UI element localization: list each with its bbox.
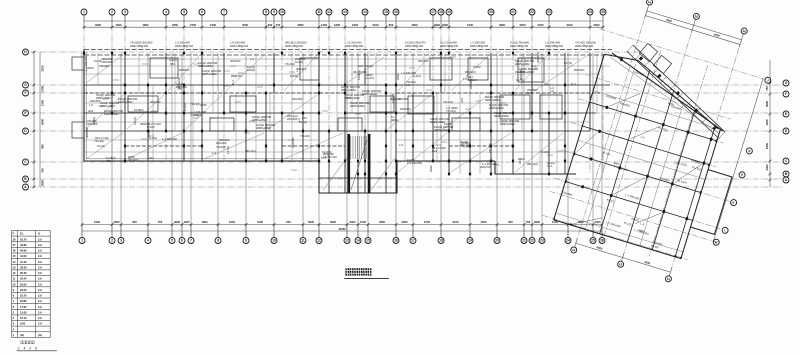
svg-text:41.10: 41.10	[20, 260, 27, 264]
svg-text:YKL6(2): YKL6(2)	[285, 62, 295, 66]
grid bubble left G	[23, 82, 29, 88]
stair flight diagonal	[351, 140, 367, 190]
svg-text:2.9: 2.9	[38, 265, 42, 269]
svg-text:2100: 2100	[453, 220, 459, 224]
svg-text:2.9: 2.9	[38, 237, 42, 241]
svg-text:GZ1: GZ1	[527, 91, 533, 95]
grid bubble top 19	[446, 9, 452, 15]
svg-text:3300: 3300	[95, 23, 101, 27]
svg-text:L-3: L-3	[250, 57, 254, 61]
svg-text:900: 900	[508, 220, 513, 224]
grid bubble top 12	[326, 9, 332, 15]
junction ramp band (ladder)	[627, 45, 725, 139]
svg-text:KL12(4): KL12(4)	[322, 150, 332, 154]
grid bubble top 24	[587, 9, 593, 15]
interior vertical walls	[112, 53, 590, 193]
svg-text:4500: 4500	[481, 220, 487, 224]
svg-text:F: F	[24, 91, 26, 95]
svg-text:300x600: 300x600	[230, 59, 241, 63]
svg-text:L-5: L-5	[550, 89, 554, 93]
svg-text:2400: 2400	[229, 220, 235, 224]
wing outer walls	[554, 50, 757, 265]
svg-text:1200: 1200	[765, 119, 769, 125]
svg-text:200x500: 200x500	[291, 137, 295, 148]
top bubble stems	[84, 15, 603, 28]
svg-text:6: 6	[181, 239, 183, 243]
svg-text:2Ø25+2Ø22: 2Ø25+2Ø22	[341, 88, 356, 92]
svg-text:L-3: L-3	[463, 77, 467, 81]
svg-text:2700: 2700	[41, 86, 45, 92]
svg-text:1 4 2 5: 1 4 2 5	[18, 347, 38, 351]
grid bubble right D	[783, 128, 789, 134]
svg-text:L-1 200x400: L-1 200x400	[407, 161, 422, 165]
svg-text:26: 26	[600, 239, 604, 243]
grid bubble bottom 10	[271, 238, 277, 244]
svg-text:2.9: 2.9	[38, 288, 42, 292]
svg-text:16: 16	[394, 239, 398, 243]
svg-text:750: 750	[41, 168, 45, 173]
svg-text:13: 13	[343, 10, 347, 14]
grid bubble left H	[23, 49, 29, 55]
grid bubble right B	[783, 171, 789, 177]
wing grid bubble 16	[740, 27, 747, 34]
right dimension ticks	[769, 82, 772, 182]
svg-text:900: 900	[268, 23, 273, 27]
svg-text:44000: 44000	[338, 227, 346, 231]
grid bubble bottom 7	[188, 238, 194, 244]
svg-text:KL1(2): KL1(2)	[94, 59, 102, 63]
svg-text:3600: 3600	[174, 220, 180, 224]
svg-text:250x600: 250x600	[102, 60, 113, 64]
svg-text:YKL3(2): YKL3(2)	[94, 139, 104, 143]
svg-text:1500: 1500	[360, 220, 366, 224]
svg-text:3900: 3900	[434, 23, 440, 27]
svg-text:KL18(3): KL18(3)	[134, 108, 144, 112]
svg-text:2250: 2250	[520, 23, 526, 27]
rotated wing block	[535, 0, 787, 294]
grid bubble top 5	[181, 9, 187, 15]
grid bubble top 18	[438, 9, 444, 15]
svg-text:300x600: 300x600	[128, 158, 139, 162]
stair core dark walls	[348, 134, 371, 193]
svg-text:29.50: 29.50	[20, 282, 27, 286]
svg-text:KL9(2): KL9(2)	[92, 117, 96, 125]
svg-text:G: G	[24, 83, 27, 87]
svg-text:KL1(2): KL1(2)	[133, 117, 137, 125]
small boxed rooms	[128, 58, 562, 131]
svg-text:23: 23	[547, 10, 551, 14]
svg-text:750: 750	[765, 86, 769, 91]
wing light beam lines	[554, 54, 732, 258]
svg-text:300x600: 300x600	[400, 107, 411, 111]
svg-text:4Ø20: 4Ø20	[451, 106, 458, 110]
left balcony stubs	[72, 57, 84, 138]
svg-text:2Ø16: 2Ø16	[396, 73, 400, 80]
svg-text:21: 21	[522, 239, 526, 243]
svg-text:20.80: 20.80	[20, 299, 27, 303]
svg-text:16: 16	[394, 10, 398, 14]
svg-text:3600: 3600	[534, 220, 540, 224]
svg-text:8: 8	[217, 239, 219, 243]
svg-text:2100: 2100	[41, 100, 45, 106]
left dimension ticks	[33, 51, 36, 189]
grid bubble top 21	[510, 9, 516, 15]
svg-text:5: 5	[183, 10, 185, 14]
svg-text:KZ1: KZ1	[149, 156, 154, 160]
wing grid bubble K	[730, 199, 737, 206]
svg-text:2Ø25+2Ø22: 2Ø25+2Ø22	[519, 70, 534, 74]
svg-text:2250: 2250	[402, 220, 408, 224]
svg-text:4800: 4800	[143, 23, 149, 27]
svg-text:2.9: 2.9	[38, 254, 42, 258]
grid bubble top 10	[279, 9, 285, 15]
svg-text:4500: 4500	[41, 119, 45, 125]
svg-text:24: 24	[566, 239, 570, 243]
svg-text:h=100: h=100	[147, 129, 151, 137]
svg-text:KZ1: KZ1	[302, 116, 307, 120]
grid bubble bottom 1	[79, 238, 85, 244]
svg-text:600: 600	[286, 220, 291, 224]
svg-text:TL-1: TL-1	[547, 164, 553, 168]
top dimension chain lines	[84, 21, 603, 27]
svg-text:10: 10	[272, 239, 276, 243]
svg-text:LL2(3): LL2(3)	[413, 74, 421, 78]
wing grid bubble N	[746, 147, 753, 154]
svg-text:2Ø25+2Ø22: 2Ø25+2Ø22	[198, 64, 213, 68]
svg-text:2.9: 2.9	[38, 299, 42, 303]
svg-text:7: 7	[223, 10, 225, 14]
junction ramp columns	[639, 56, 717, 130]
svg-text:2Ø25+2Ø22: 2Ø25+2Ø22	[500, 122, 515, 126]
svg-text:KL7(1): KL7(1)	[299, 120, 307, 124]
svg-text:YKL6(2): YKL6(2)	[216, 145, 226, 149]
svg-text:2Ø22 Ø8@100: 2Ø22 Ø8@100	[470, 44, 489, 48]
grid bubble top 7	[221, 9, 227, 15]
grid bubble bottom 22	[529, 238, 535, 244]
svg-text:3300: 3300	[442, 23, 448, 27]
svg-text:2Ø25+2Ø22: 2Ø25+2Ø22	[345, 96, 360, 100]
svg-text:4500: 4500	[114, 220, 120, 224]
svg-text:23: 23	[540, 239, 544, 243]
bottom dimension tick marks	[81, 223, 604, 226]
svg-text:18: 18	[439, 239, 443, 243]
svg-text:TL-1: TL-1	[231, 79, 235, 85]
svg-text:32.40: 32.40	[20, 277, 27, 281]
grid bubble bottom 24	[565, 238, 571, 244]
svg-text:2: 2	[111, 239, 113, 243]
svg-text:2400: 2400	[352, 23, 358, 27]
svg-text:1: 1	[81, 239, 83, 243]
svg-text:2.9: 2.9	[38, 294, 42, 298]
svg-text:L-5: L-5	[295, 68, 299, 72]
svg-text:2Ø22 Ø8@100: 2Ø22 Ø8@100	[230, 44, 249, 48]
plan annotation texts	[84, 52, 585, 172]
wing grid bubble 15	[693, 13, 700, 20]
stair treads	[351, 136, 366, 159]
grid bubble left F	[23, 90, 29, 96]
svg-text:23.70: 23.70	[20, 294, 27, 298]
svg-text:1500: 1500	[467, 23, 473, 27]
svg-text:L-1 200x400: L-1 200x400	[162, 137, 177, 141]
svg-text:2: 2	[111, 10, 113, 14]
svg-text:18: 18	[439, 10, 443, 14]
svg-text:4800: 4800	[379, 220, 385, 224]
grid bubble top 9	[271, 9, 277, 15]
svg-text:H: H	[38, 232, 40, 236]
svg-text:2Ø25+2Ø22: 2Ø25+2Ø22	[494, 114, 509, 118]
svg-text:750: 750	[158, 220, 163, 224]
floor table cell texts	[13, 232, 43, 337]
svg-text:KL7(1): KL7(1)	[564, 61, 572, 65]
svg-text:15: 15	[366, 239, 370, 243]
svg-text:250x600: 250x600	[574, 68, 585, 72]
svg-text:2250: 2250	[41, 65, 45, 71]
grid bubble bottom 25	[590, 238, 596, 244]
svg-text:L-5: L-5	[89, 103, 93, 107]
svg-text:WKL2(2): WKL2(2)	[460, 143, 471, 147]
svg-text:2.9: 2.9	[38, 249, 42, 253]
wing grid bubble J	[764, 76, 771, 83]
grid bubble bottom 23	[539, 238, 545, 244]
interior light beam lines	[84, 53, 610, 174]
grid bubble right E	[783, 111, 789, 117]
svg-text:26.60: 26.60	[20, 288, 27, 292]
svg-text:2Ø25+2Ø22: 2Ø25+2Ø22	[100, 104, 115, 108]
grid bubble bottom 3	[118, 238, 124, 244]
junction bay diamond 1	[639, 43, 657, 61]
structural columns (filled)	[83, 52, 566, 176]
svg-text:2Ø22 Ø8@100: 2Ø22 Ø8@100	[130, 44, 149, 48]
wing grid bubble 16	[665, 275, 672, 282]
wing grid bubble P	[738, 171, 745, 178]
svg-text:2Ø22 Ø8@100: 2Ø22 Ø8@100	[175, 44, 194, 48]
svg-text:300x700: 300x700	[418, 59, 429, 63]
svg-text:1: 1	[83, 10, 85, 14]
svg-text:KL18(3): KL18(3)	[357, 70, 361, 80]
horizontal grid axis lines (dash-dot)	[30, 52, 783, 187]
svg-text:300x700: 300x700	[150, 100, 161, 104]
grid bubble top 13	[342, 9, 348, 15]
grid bubble bottom 15	[365, 238, 371, 244]
svg-text:12: 12	[317, 239, 321, 243]
grid bubble top 14	[362, 9, 368, 15]
wing bottom dimension chain	[576, 243, 671, 272]
svg-text:8: 8	[265, 10, 267, 14]
grid bubble bottom 14	[355, 238, 361, 244]
grid bubble top 2	[109, 9, 115, 15]
svg-text:20: 20	[489, 10, 493, 14]
svg-text:17: 17	[411, 239, 415, 243]
svg-text:KL9(2): KL9(2)	[290, 74, 298, 78]
grid bubble top 6	[199, 9, 205, 15]
grid bubble top 3	[122, 9, 128, 15]
svg-text:YKL3(2): YKL3(2)	[190, 102, 200, 106]
junction ramp ticks	[627, 45, 725, 139]
grid bubble bottom 16	[393, 238, 399, 244]
svg-text:17: 17	[431, 10, 435, 14]
svg-text:3900: 3900	[330, 220, 336, 224]
svg-text:2Ø25+2Ø22: 2Ø25+2Ø22	[350, 104, 365, 108]
floor level table	[12, 231, 51, 338]
vertical grid axis lines (top row)	[84, 16, 603, 194]
svg-text:12: 12	[327, 10, 331, 14]
svg-text:2Ø25+2Ø22: 2Ø25+2Ø22	[202, 72, 217, 76]
grid bubble left D	[23, 128, 29, 134]
grid bubble left E	[23, 110, 29, 116]
svg-text:750: 750	[526, 220, 531, 224]
grid bubble right G	[783, 80, 789, 86]
svg-text:GZ1: GZ1	[358, 64, 364, 68]
table caption	[21, 341, 35, 344]
svg-text:5: 5	[171, 239, 173, 243]
svg-text:900: 900	[41, 144, 45, 149]
svg-text:4: 4	[165, 10, 167, 14]
bottom dimension numbers	[94, 220, 601, 224]
svg-text:200x500: 200x500	[398, 97, 409, 101]
svg-text:15: 15	[384, 10, 388, 14]
svg-text:2400: 2400	[595, 220, 601, 224]
svg-text:YKL6(2): YKL6(2)	[443, 100, 453, 104]
vertical grid axis lines (bottom row)	[82, 53, 602, 237]
svg-text:F: F	[785, 92, 787, 96]
bottom bubble stems	[82, 224, 602, 237]
wing columns	[552, 53, 733, 261]
svg-text:5100: 5100	[373, 23, 379, 27]
grid bubble left C	[23, 159, 29, 165]
top dimension tick marks	[83, 26, 605, 29]
svg-text:LL2(3): LL2(3)	[183, 103, 187, 111]
svg-text:900: 900	[132, 220, 137, 224]
svg-text:14: 14	[356, 239, 360, 243]
grid bubble top 4	[163, 9, 169, 15]
svg-text:3600: 3600	[765, 101, 769, 107]
svg-text:(m): (m)	[38, 333, 42, 337]
core side room diagonals	[323, 158, 395, 190]
svg-text:KL12(4): KL12(4)	[391, 93, 395, 103]
svg-text:3: 3	[120, 239, 122, 243]
svg-text:1200: 1200	[184, 220, 190, 224]
svg-text:L-3: L-3	[406, 83, 410, 87]
svg-text:2Ø22 Ø8@100: 2Ø22 Ø8@100	[575, 44, 594, 48]
svg-text:13: 13	[345, 239, 349, 243]
svg-text:3600: 3600	[41, 180, 45, 186]
svg-text:38.20: 38.20	[20, 265, 27, 269]
svg-text:300x700: 300x700	[85, 127, 89, 138]
svg-text:GZ1: GZ1	[460, 97, 464, 103]
grid bubble left B	[23, 176, 29, 182]
svg-text:2Ø25+2Ø22: 2Ø25+2Ø22	[434, 128, 449, 132]
svg-text:1800: 1800	[765, 143, 769, 149]
svg-text:19: 19	[447, 10, 451, 14]
svg-text:9: 9	[245, 239, 247, 243]
svg-text:2Ø22 Ø8@100: 2Ø22 Ø8@100	[405, 44, 424, 48]
svg-text:35.30: 35.30	[20, 271, 27, 275]
grid bubble right F	[783, 91, 789, 97]
svg-text:h=100: h=100	[541, 150, 549, 154]
grid bubble top 17	[430, 9, 436, 15]
svg-text:KZ1: KZ1	[170, 62, 175, 66]
svg-text:25: 25	[601, 10, 605, 14]
grid bubble top 15	[383, 9, 389, 15]
svg-text:750: 750	[276, 23, 281, 27]
main building outer walls	[84, 50, 723, 194]
wing interior walls	[554, 54, 732, 258]
wing top dimension chain	[645, 11, 741, 45]
svg-text:KL1(2): KL1(2)	[97, 144, 105, 148]
svg-text:2Ø22 Ø8@100: 2Ø22 Ø8@100	[510, 44, 529, 48]
grid bubble top 16	[393, 9, 399, 15]
svg-text:TL-1: TL-1	[571, 82, 577, 86]
svg-text:9: 9	[273, 10, 275, 14]
svg-text:(m): (m)	[20, 333, 24, 337]
svg-text:KL7(1): KL7(1)	[226, 146, 230, 154]
svg-text:KZ1: KZ1	[518, 159, 522, 164]
svg-text:2700: 2700	[538, 23, 544, 27]
wing right dimension chain	[713, 79, 763, 242]
svg-text:LB-2 h=110: LB-2 h=110	[432, 146, 446, 150]
svg-text:2Ø25+2Ø22: 2Ø25+2Ø22	[485, 98, 500, 102]
svg-text:WKL2(2): WKL2(2)	[465, 70, 476, 74]
svg-text:15.00: 15.00	[20, 310, 27, 314]
svg-text:2Ø22 Ø8@100: 2Ø22 Ø8@100	[285, 44, 304, 48]
svg-text:KL9(2): KL9(2)	[247, 68, 255, 72]
grid bubble bottom 19	[467, 238, 473, 244]
wing cross grid lines (dash-dot)	[543, 29, 766, 266]
svg-text:11: 11	[301, 239, 305, 243]
grid bubble bottom 6	[179, 238, 185, 244]
svg-text:46.90: 46.90	[20, 249, 27, 253]
grid bubble top 1	[81, 9, 87, 15]
svg-text:22: 22	[530, 10, 534, 14]
svg-text:1800: 1800	[202, 220, 208, 224]
svg-text:2Ø25+2Ø22: 2Ø25+2Ø22	[96, 96, 111, 100]
wing grid bubble 14	[646, 0, 653, 6]
dense annotation clusters	[96, 59, 539, 132]
svg-text:5100: 5100	[257, 220, 263, 224]
svg-text:4800: 4800	[499, 23, 505, 27]
svg-text:44.00: 44.00	[20, 254, 27, 258]
grid bubble bottom 11	[300, 238, 306, 244]
svg-text:2Ø25+2Ø22: 2Ø25+2Ø22	[489, 106, 504, 110]
svg-text:2.9: 2.9	[38, 322, 42, 326]
svg-text:2.9: 2.9	[38, 260, 42, 264]
svg-text:3: 3	[124, 10, 126, 14]
svg-text:2Ø25+2Ø22: 2Ø25+2Ø22	[256, 126, 271, 130]
svg-text:1800: 1800	[334, 23, 340, 27]
wing annotation texts	[554, 60, 723, 255]
svg-text:h=100: h=100	[473, 65, 481, 69]
grid bubble bottom 8	[215, 238, 221, 244]
grid bubble bottom 9	[243, 238, 249, 244]
svg-text:2Ø25+2Ø22: 2Ø25+2Ø22	[362, 92, 377, 96]
svg-text:WKL2(2): WKL2(2)	[177, 78, 181, 89]
svg-text:14: 14	[363, 10, 367, 14]
leader line marks	[98, 57, 563, 170]
svg-text:25: 25	[591, 239, 595, 243]
svg-text:2.9: 2.9	[38, 271, 42, 275]
svg-text:3000: 3000	[308, 220, 314, 224]
svg-text:4500: 4500	[594, 23, 600, 27]
right dimension numbers	[765, 86, 769, 171]
svg-text:h=100: h=100	[147, 125, 155, 129]
svg-text:6: 6	[201, 10, 203, 14]
svg-text:2Ø25+2Ø22: 2Ø25+2Ø22	[252, 118, 267, 122]
svg-text:250x600: 250x600	[179, 68, 190, 72]
bottom dimension chain lines	[82, 225, 602, 232]
grid bubble top 22	[529, 9, 535, 15]
svg-text:2Ø25+2Ø22: 2Ø25+2Ø22	[118, 100, 133, 104]
svg-text:9.20: 9.20	[20, 322, 26, 326]
